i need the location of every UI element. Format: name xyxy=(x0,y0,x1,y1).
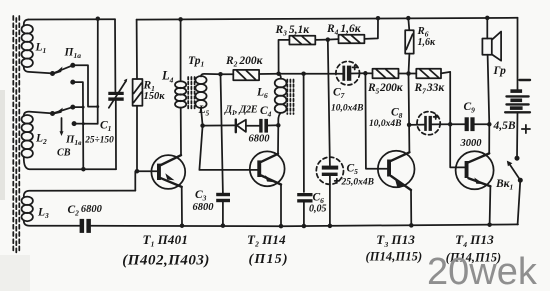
ferrite rod (dashed core of magnetic antenna) xyxy=(13,16,19,253)
node C9/speaker/T4-collector junction xyxy=(487,122,492,127)
svg-text:Т1П401: Т1П401 xyxy=(143,232,189,249)
wire detector row xyxy=(203,124,235,126)
wire T2 emitter down xyxy=(280,185,282,227)
svg-text:10,0х4В: 10,0х4В xyxy=(331,104,363,114)
coil L2 xyxy=(22,112,117,170)
node: bus tap on L2 wire xyxy=(81,167,86,172)
svg-text:25÷150: 25÷150 xyxy=(84,136,114,146)
coil L6 core xyxy=(287,80,293,115)
svg-text:1,6к: 1,6к xyxy=(418,37,437,48)
wire R3 riser xyxy=(279,40,290,74)
wire: main top rail xyxy=(137,18,518,20)
svg-text:25,0х4В: 25,0х4В xyxy=(341,178,374,188)
svg-text:(П14,П15): (П14,П15) xyxy=(366,250,423,264)
wire D1 link xyxy=(73,65,98,106)
resistor R4 xyxy=(328,18,378,43)
node D3 (П1в contact) xyxy=(70,105,75,110)
transformer Тр1 core xyxy=(188,77,194,110)
svg-text:Д1, Д2Е: Д1, Д2Е xyxy=(224,104,258,117)
wire riser to top rail xyxy=(97,19,99,124)
wire T2 collector up xyxy=(277,125,279,154)
resistor R5 xyxy=(365,69,408,79)
capacitor C5 (electrolytic) xyxy=(316,157,343,226)
coil L6 xyxy=(275,74,287,126)
switch Вк1 xyxy=(507,156,523,225)
capacitor C3 xyxy=(216,193,230,226)
svg-text:Т4П13: Т4П13 xyxy=(455,232,494,249)
resistor R2 xyxy=(221,70,279,80)
svg-text:R41,6к: R41,6к xyxy=(326,23,362,37)
svg-text:4,5В: 4,5В xyxy=(493,120,516,132)
transformer Тр1: winding L5 xyxy=(195,74,220,126)
transistor T1 xyxy=(151,155,185,189)
wire T1 emitter down xyxy=(181,187,183,226)
node detector/L6 junction xyxy=(276,123,281,128)
wire C6 riser xyxy=(303,74,305,192)
transistor T2 xyxy=(250,151,285,186)
capacitor C4 xyxy=(259,119,278,133)
wire D3 tap xyxy=(73,106,83,108)
resistor R7 xyxy=(409,69,465,168)
svg-text:6800: 6800 xyxy=(193,202,215,213)
wire row74 to C7 xyxy=(279,73,343,75)
svg-text:(П15): (П15) xyxy=(249,252,289,267)
svg-text:R733к: R733к xyxy=(414,82,446,96)
node D2 (П1а lower contact) xyxy=(70,80,75,85)
wire T4 emitter down xyxy=(489,186,492,225)
wire C3 riser xyxy=(221,74,223,193)
node C8 row tap xyxy=(407,123,412,128)
capacitor C6 xyxy=(297,193,312,226)
wire T3 collector riser xyxy=(408,74,411,153)
node D4 (П1в lower contact) xyxy=(72,121,77,126)
wire D4 row to C1 riser xyxy=(74,123,98,125)
node C6 tap xyxy=(301,71,306,76)
wire base node to T1 xyxy=(137,170,157,172)
transistor T4 xyxy=(456,151,494,189)
wire T2 base xyxy=(199,126,257,170)
node R3/R4 junction xyxy=(326,37,331,42)
wire D2 down to base bus xyxy=(73,82,84,169)
label plus xyxy=(522,125,530,133)
wire T4 collector up xyxy=(488,124,490,153)
svg-text:R35,1к: R35,1к xyxy=(275,24,311,38)
wire: bottom rail xyxy=(91,224,518,226)
svg-text:(П402,П403): (П402,П403) xyxy=(122,253,210,269)
capacitor C7 (electrolytic) xyxy=(336,61,365,85)
resistor R1 xyxy=(133,20,143,172)
diode Д1 xyxy=(236,120,259,133)
switch П1в xyxy=(50,107,73,116)
svg-text:R2200к: R2200к xyxy=(225,55,264,69)
node C7/R5 junction xyxy=(363,71,368,76)
node R5/R6/R7 junction xyxy=(406,71,411,76)
transistor T3 xyxy=(378,151,415,190)
switch П1а xyxy=(50,63,75,76)
svg-text:Гр: Гр xyxy=(493,65,507,77)
capacitor C9 xyxy=(450,117,489,131)
svg-text:3000: 3000 xyxy=(460,138,483,149)
capacitor C1 (variable) xyxy=(108,19,127,169)
svg-text:10,0х4В: 10,0х4В xyxy=(369,119,401,129)
resistor R3 xyxy=(289,36,327,45)
svg-text:150к: 150к xyxy=(144,91,166,102)
svg-text:R5200к: R5200к xyxy=(367,82,404,96)
wire C5 riser xyxy=(328,40,330,166)
transformer Тр1: winding L4 xyxy=(175,19,186,107)
capacitor C2 xyxy=(80,219,91,233)
wire T3 base feeder xyxy=(365,73,387,168)
svg-text:6800: 6800 xyxy=(249,134,271,145)
svg-text:20wek: 20wek xyxy=(427,251,538,291)
battery 4,5В xyxy=(505,18,530,158)
node R2/L6/R3 junction xyxy=(276,71,281,76)
svg-text:Т3П13: Т3П13 xyxy=(376,232,415,249)
svg-text:Т2П14: Т2П14 xyxy=(247,232,286,249)
wire T3 emitter down xyxy=(410,190,412,225)
wire T1 collector up xyxy=(180,108,182,156)
node T1 base junction xyxy=(135,169,140,174)
label minus xyxy=(520,79,531,81)
wire: left loop top rail xyxy=(29,18,116,20)
speaker Гр xyxy=(482,18,501,124)
coil L1 xyxy=(22,20,51,74)
label П1в with arrow xyxy=(60,118,83,147)
coil L3 xyxy=(22,191,136,226)
capacitor C8 (electrolytic) xyxy=(409,112,450,135)
svg-text:0,05: 0,05 xyxy=(309,204,327,215)
wire L3 riser to T1 base node xyxy=(134,171,136,190)
resistor R6 xyxy=(405,18,414,73)
svg-text:СВ: СВ xyxy=(57,148,71,159)
node C8/C9/T4-base junction xyxy=(448,122,453,127)
